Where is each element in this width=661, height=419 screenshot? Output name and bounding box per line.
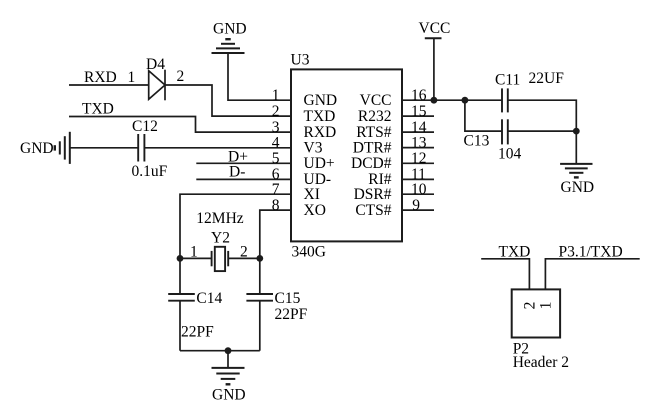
- wire XO: U3 pin8 to crystal right: [260, 210, 291, 258]
- wire branch down from pin16 net to C13 row: [465, 100, 502, 131]
- U3 right pin numbers: [411, 87, 427, 214]
- wire right branch to C15: [259, 258, 261, 294]
- svg-text:XO: XO: [304, 202, 326, 219]
- svg-text:XI: XI: [304, 186, 320, 203]
- svg-text:TXD: TXD: [82, 101, 114, 118]
- U3 left pin numbers: [272, 87, 280, 214]
- wire pin16 net to C11: [434, 99, 502, 101]
- capacitor C13: [464, 119, 522, 162]
- svg-text:GND: GND: [561, 179, 595, 196]
- svg-text:DCD#: DCD#: [351, 155, 392, 172]
- svg-text:C14: C14: [196, 290, 222, 307]
- svg-text:C13: C13: [464, 133, 490, 150]
- svg-text:Y2: Y2: [211, 230, 230, 247]
- svg-text:14: 14: [411, 119, 427, 136]
- wire D+ to U3 pin5: [196, 162, 291, 164]
- svg-text:4: 4: [272, 134, 280, 151]
- svg-text:C15: C15: [275, 290, 301, 307]
- svg-text:22PF: 22PF: [275, 306, 308, 323]
- svg-text:DSR#: DSR#: [354, 186, 392, 203]
- junction dot VCC/pin16: [431, 97, 438, 104]
- svg-text:9: 9: [412, 197, 420, 214]
- ground GND top: [212, 21, 247, 54]
- svg-text:10: 10: [411, 181, 427, 198]
- U3 left pin names: [304, 92, 338, 219]
- svg-text:V3: V3: [304, 139, 323, 156]
- svg-text:340G: 340G: [292, 244, 326, 261]
- svg-text:2: 2: [521, 302, 538, 310]
- net label D+: [228, 149, 248, 166]
- svg-text:D-: D-: [229, 164, 245, 181]
- svg-text:VCC: VCC: [360, 92, 392, 109]
- svg-text:2: 2: [177, 68, 185, 85]
- header P2: [512, 289, 569, 371]
- junction dot crystal left: [177, 255, 184, 262]
- junction dot pin16 net: [462, 97, 469, 104]
- svg-text:UD+: UD+: [304, 155, 335, 172]
- wire XI: U3 pin7 to crystal left: [180, 194, 291, 258]
- wire TXD to P2 pin2: [481, 259, 529, 290]
- svg-text:16: 16: [411, 87, 427, 104]
- wire RXD to diode: [69, 84, 149, 86]
- svg-text:22PF: 22PF: [181, 324, 214, 341]
- svg-text:12: 12: [411, 150, 427, 167]
- svg-text:13: 13: [411, 134, 427, 151]
- wire left branch to C14: [179, 258, 181, 294]
- svg-text:R232: R232: [358, 108, 392, 125]
- junction dot C13/right vertical: [573, 128, 580, 135]
- svg-text:1: 1: [537, 302, 554, 310]
- capacitor C11: [495, 70, 564, 112]
- net label TXD (header): [499, 244, 531, 261]
- svg-text:Header 2: Header 2: [513, 354, 569, 371]
- U3 right pin stubs 16..9: [402, 100, 434, 210]
- wire C11 to right vertical: [508, 100, 577, 131]
- svg-text:5: 5: [272, 150, 280, 167]
- wire bottom rail: [180, 350, 260, 352]
- svg-text:22UF: 22UF: [529, 70, 565, 87]
- wire crystal left node: [180, 257, 212, 259]
- ground GND right: [560, 131, 594, 196]
- U3 right pin names: [351, 92, 392, 219]
- svg-text:GND: GND: [20, 140, 54, 157]
- wire TXD to U3 pin3: [69, 117, 291, 133]
- wire D- to U3 pin6: [196, 178, 291, 180]
- svg-text:12MHz: 12MHz: [196, 210, 243, 227]
- net label TXD: [82, 101, 114, 118]
- net label RXD: [84, 69, 117, 86]
- capacitor C14: [168, 290, 222, 341]
- svg-text:TXD: TXD: [304, 108, 336, 125]
- net label D-: [229, 164, 245, 181]
- svg-text:7: 7: [272, 181, 280, 198]
- svg-text:104: 104: [498, 146, 522, 163]
- wire C15 down to bottom rail: [259, 301, 261, 351]
- svg-text:2: 2: [272, 103, 280, 120]
- svg-text:RXD: RXD: [304, 124, 337, 141]
- capacitor C12: [132, 118, 168, 180]
- wire D4 cathode to U3 pin2: [165, 85, 291, 116]
- svg-text:VCC: VCC: [419, 20, 451, 37]
- svg-text:GND: GND: [213, 21, 247, 38]
- wire C14 down to bottom rail: [179, 301, 181, 351]
- wire GND to C12: [70, 147, 138, 149]
- junction dot bottom rail: [225, 347, 232, 354]
- svg-text:DTR#: DTR#: [353, 139, 392, 156]
- wire P3.1/TXD to P2 pin1: [545, 259, 639, 290]
- wire C13 to right vertical: [508, 130, 577, 132]
- diode D4: [128, 56, 185, 101]
- capacitor C15: [246, 290, 307, 323]
- svg-text:1: 1: [128, 69, 136, 86]
- net label P3.1/TXD: [559, 244, 623, 261]
- svg-text:1: 1: [272, 87, 280, 104]
- wire crystal right node: [228, 257, 260, 259]
- svg-text:C12: C12: [132, 118, 158, 135]
- svg-text:GND: GND: [304, 92, 338, 109]
- wire top GND to U3 pin1: [228, 53, 291, 100]
- svg-text:CTS#: CTS#: [355, 202, 391, 219]
- svg-text:0.1uF: 0.1uF: [132, 163, 168, 180]
- svg-text:3: 3: [272, 119, 280, 136]
- svg-text:D4: D4: [146, 56, 165, 73]
- power VCC: [419, 20, 451, 100]
- wire C12 to U3 pin4: [144, 147, 291, 149]
- svg-text:GND: GND: [212, 387, 246, 404]
- svg-text:U3: U3: [291, 52, 310, 69]
- svg-text:8: 8: [272, 197, 280, 214]
- svg-text:15: 15: [411, 103, 427, 120]
- crystal Y2: [190, 210, 248, 271]
- svg-text:C11: C11: [495, 72, 520, 89]
- ground GND bottom: [212, 351, 246, 404]
- op chip U3: [291, 52, 403, 261]
- junction dot crystal right: [256, 255, 263, 262]
- svg-text:RTS#: RTS#: [356, 124, 391, 141]
- ground GND left (sideways): [20, 132, 70, 164]
- svg-text:RXD: RXD: [84, 69, 117, 86]
